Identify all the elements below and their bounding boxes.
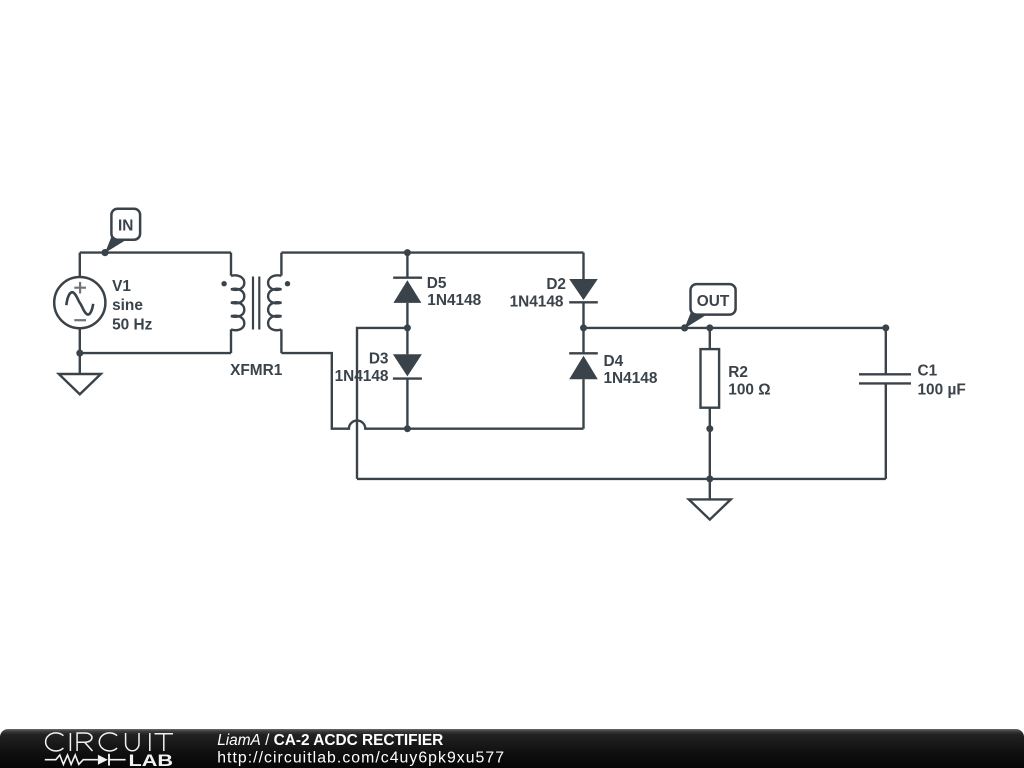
node OUT flag <box>684 284 735 329</box>
svg-text:OUT: OUT <box>697 293 730 310</box>
svg-text:sine: sine <box>112 297 143 314</box>
svg-text:1N4148: 1N4148 <box>427 292 481 309</box>
svg-text:D2: D2 <box>546 276 566 293</box>
junction ground node <box>706 475 713 482</box>
diode D4 <box>569 328 598 429</box>
label D2 <box>510 276 566 310</box>
label D5 <box>427 275 482 309</box>
diode D3 <box>393 328 422 429</box>
svg-text:1N4148: 1N4148 <box>510 293 564 310</box>
wire V1 bottom to XFMR1 primary <box>80 352 231 354</box>
wire bottom rail <box>357 478 886 480</box>
wire node D5-D3 down to bottom rail <box>357 328 407 479</box>
node IN flag <box>105 209 140 253</box>
ground (R2) <box>689 479 731 520</box>
svg-text:100 Ω: 100 Ω <box>728 382 770 399</box>
junction D5-D3 node <box>404 324 411 331</box>
wire R2 bottom to ground node <box>709 429 711 479</box>
footer bar <box>0 729 1024 768</box>
junction D2-D4 node <box>580 324 587 331</box>
label D4 <box>604 353 658 387</box>
svg-text:IN: IN <box>118 218 133 235</box>
svg-text:V1: V1 <box>112 278 131 295</box>
logo CIRCUIT wordmark <box>46 733 173 751</box>
wire XFMR1 secondary top to D5/D2 <box>281 251 583 253</box>
wire OUT rail D2/D4 node to C1 <box>584 327 886 329</box>
wire XFMR1 secondary bottom to bridge bottom rail with hop <box>281 353 583 429</box>
capacitor C1 <box>859 328 911 479</box>
label C1 <box>918 363 966 399</box>
svg-text:50 Hz: 50 Hz <box>112 316 153 333</box>
svg-text:1N4148: 1N4148 <box>335 368 389 385</box>
resistor R2 <box>701 328 720 429</box>
voltage source V1 <box>54 253 105 354</box>
svg-text:1N4148: 1N4148 <box>604 370 658 387</box>
svg-text:100 µF: 100 µF <box>918 382 966 399</box>
junction D5 top <box>404 249 411 256</box>
ground (V1) <box>59 353 101 394</box>
svg-text:D3: D3 <box>369 351 389 368</box>
junction OUT node <box>681 324 688 331</box>
junction R2 top <box>706 324 713 331</box>
svg-text:D4: D4 <box>604 353 624 370</box>
junction V1 ground <box>76 350 83 357</box>
transformer XFMR1 <box>221 253 290 354</box>
diode D2 <box>569 253 598 328</box>
junction IN node <box>101 249 108 256</box>
label R2 <box>728 364 770 399</box>
svg-text:D5: D5 <box>427 275 447 292</box>
svg-text:C1: C1 <box>918 363 938 380</box>
svg-text:R2: R2 <box>728 364 748 381</box>
svg-text:LiamA / CA-2 ACDC RECTIFIER: LiamA / CA-2 ACDC RECTIFIER <box>217 732 443 749</box>
wire V1 top to XFMR1 primary <box>80 251 231 253</box>
svg-text:XFMR1: XFMR1 <box>230 362 283 379</box>
svg-text:http://circuitlab.com/c4uy6pk9: http://circuitlab.com/c4uy6pk9xu577 <box>217 750 505 767</box>
logo LAB <box>129 751 174 768</box>
junction C1 top <box>882 324 889 331</box>
label V1 value <box>112 278 153 333</box>
svg-text:LAB: LAB <box>129 751 174 768</box>
junction D3 bottom <box>404 425 411 432</box>
logo resistor-diode glyph <box>45 754 126 766</box>
diode D5 <box>393 253 422 328</box>
label D3 <box>335 351 389 386</box>
junction R2 bottom <box>706 425 713 432</box>
